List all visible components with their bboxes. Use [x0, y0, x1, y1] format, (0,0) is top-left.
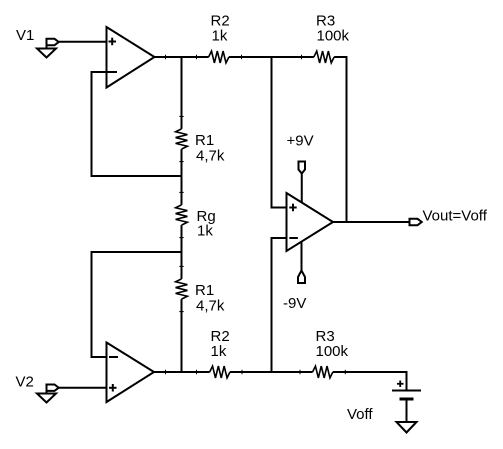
terminal V2 — [37, 385, 59, 403]
svg-text:100k: 100k — [316, 343, 349, 360]
pin end ticks — [166, 55, 346, 374]
wire node A down main vertical — [181, 57, 183, 129]
op-amp U1 — [107, 27, 155, 88]
resistor R2 (top) — [209, 51, 229, 63]
terminal V- supply — [298, 242, 305, 284]
resistor R1 (bottom, vertical) — [176, 279, 188, 299]
wire U3 - input down to bottom rail — [272, 238, 287, 372]
svg-text:1k: 1k — [212, 28, 228, 45]
wire R2 to R3 (top) — [229, 56, 314, 58]
svg-text:Vout=Voff: Vout=Voff — [423, 208, 488, 225]
wire U2 output along bottom rail — [154, 371, 210, 373]
svg-text:R1: R1 — [195, 282, 214, 299]
terminal Vout — [410, 219, 422, 225]
svg-text:4,7k: 4,7k — [196, 298, 225, 315]
resistor R2 (bottom) — [210, 366, 230, 378]
terminal V+ supply — [299, 162, 306, 203]
wire battery to ground — [406, 399, 408, 422]
resistor R1 (top, vertical) — [176, 129, 188, 149]
resistor R3 (bottom) — [313, 366, 333, 378]
wire U1 feedback (inverting input to node B) — [92, 72, 182, 176]
svg-text:-9V: -9V — [283, 295, 306, 312]
wire R1 to Rg on main vertical — [181, 149, 183, 205]
wire bottom rail corner down to battery — [406, 371, 408, 391]
wire V1 to op-amp U1 + input — [59, 41, 107, 43]
wire R3 to battery — [333, 371, 407, 373]
wire U3 output to Vout terminal — [333, 221, 410, 223]
wire node D up to U3 + input — [272, 57, 287, 208]
wire V2 to op-amp U2 + input — [59, 387, 107, 389]
svg-text:R1: R1 — [195, 132, 214, 149]
op-amp U2 — [107, 343, 155, 403]
wire U1 output to node A — [155, 56, 209, 58]
battery Voff — [392, 381, 421, 400]
wire R3 right end down to output node — [334, 57, 346, 222]
svg-text:1k: 1k — [211, 343, 227, 360]
wire R2 to R3 (bottom) — [230, 371, 313, 373]
ground — [397, 422, 417, 433]
svg-text:V1: V1 — [16, 27, 34, 44]
resistor R3 (top) — [314, 51, 334, 63]
svg-text:V2: V2 — [16, 374, 34, 391]
resistor Rg — [176, 205, 188, 225]
svg-text:4,7k: 4,7k — [196, 148, 225, 165]
op-amp U3 — [287, 193, 334, 251]
terminal V1 — [37, 39, 59, 58]
svg-text:+9V: +9V — [287, 133, 314, 150]
wire U2 feedback (inverting input to node C) — [92, 252, 182, 357]
wire bottom R1 down to bottom rail — [181, 299, 183, 372]
wire Rg to bottom R1 on main vertical — [181, 225, 183, 279]
svg-text:Voff: Voff — [347, 406, 373, 423]
svg-text:1k: 1k — [197, 223, 213, 240]
svg-text:100k: 100k — [317, 28, 350, 45]
